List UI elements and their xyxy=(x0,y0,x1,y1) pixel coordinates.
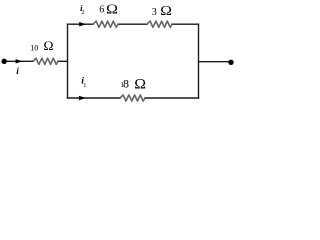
svg-text:3: 3 xyxy=(152,7,157,18)
svg-text:8: 8 xyxy=(123,76,129,90)
svg-text:10: 10 xyxy=(30,43,38,52)
svg-text:Ω: Ω xyxy=(134,77,146,93)
svg-text:Ω: Ω xyxy=(44,39,54,53)
svg-text:1: 1 xyxy=(83,82,86,89)
svg-text:Ω: Ω xyxy=(160,4,172,19)
svg-text:6: 6 xyxy=(99,5,104,16)
svg-text:Ω: Ω xyxy=(106,3,118,18)
svg-text:i: i xyxy=(16,67,19,77)
svg-text:2: 2 xyxy=(81,9,84,16)
